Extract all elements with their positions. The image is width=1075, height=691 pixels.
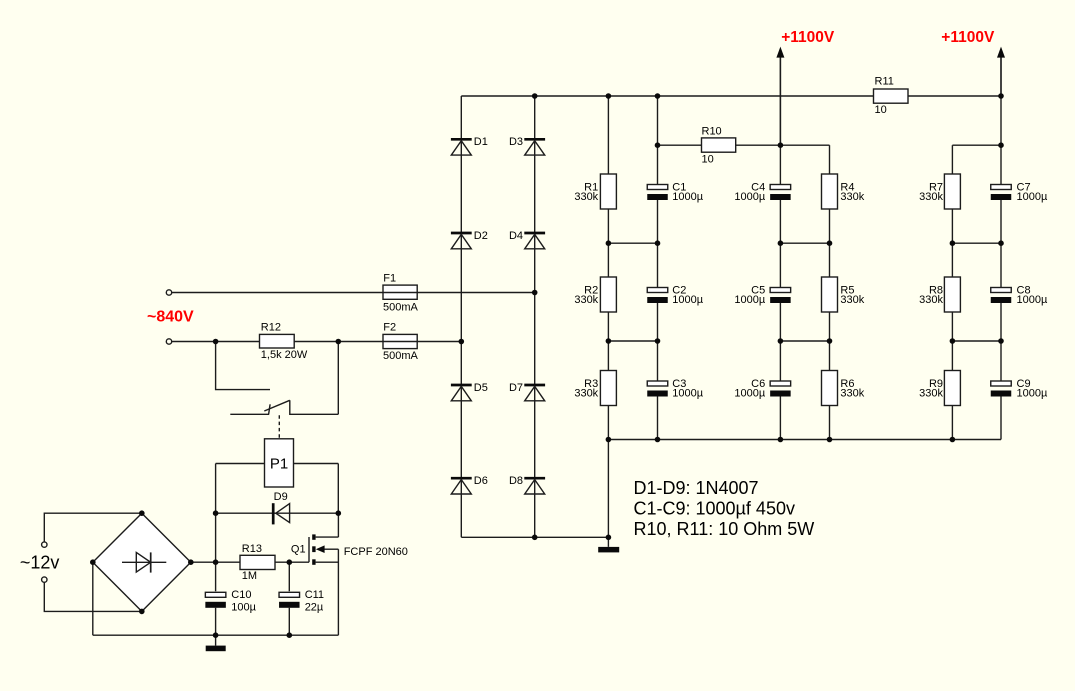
node: F2 out / D1 column xyxy=(459,339,465,345)
svg-text:1000µ: 1000µ xyxy=(1017,191,1048,203)
wire: bridge plus to R13 xyxy=(191,561,240,563)
diode D6 xyxy=(451,478,472,494)
relay coil P1 xyxy=(265,439,294,487)
svg-text:D2: D2 xyxy=(474,230,488,242)
wire: relay contact right throw xyxy=(290,400,339,414)
svg-text:R12: R12 xyxy=(261,322,281,334)
wire: F1 element through body xyxy=(383,292,417,294)
svg-text:P1: P1 xyxy=(270,456,288,473)
svg-text:1,5k 20W: 1,5k 20W xyxy=(261,349,308,361)
capacitor C9 xyxy=(991,381,1012,397)
node: bridge right vertex xyxy=(188,559,194,565)
node: diode bottom bus / ground column xyxy=(606,535,612,541)
svg-text:330k: 330k xyxy=(919,387,943,399)
wire: row2 link C5-R5 xyxy=(780,340,829,342)
wire: relay contact fixed throw xyxy=(230,413,269,415)
terminal: 12v upper xyxy=(42,542,47,547)
node: row2 x=780.4 xyxy=(778,338,784,344)
wire: F1 line xyxy=(172,292,535,294)
resistor R8 xyxy=(944,277,960,312)
node: D9 left xyxy=(213,510,219,516)
wire: top HV bus xyxy=(461,95,1001,97)
wire: C11 column xyxy=(288,562,290,635)
svg-text:C1-C9: 1000µf 450v: C1-C9: 1000µf 450v xyxy=(634,498,795,518)
ground (main HV) xyxy=(598,547,619,553)
node: row1 x=780.4 xyxy=(778,240,784,246)
wire: row1 link C4-R4 xyxy=(780,242,829,244)
resistor R6 xyxy=(822,371,838,406)
svg-text:D8: D8 xyxy=(509,475,523,487)
resistor R7 xyxy=(944,174,960,209)
node: cap bus x=657.5 xyxy=(655,437,661,443)
svg-text:1000µ: 1000µ xyxy=(672,191,703,203)
wire: row1 link R7-C7 xyxy=(952,242,1001,244)
wire: relay actuator dashed link xyxy=(278,415,280,439)
wire: low-voltage ground bus xyxy=(93,634,339,636)
capacitor C1 xyxy=(647,185,668,201)
svg-text:1000µ: 1000µ xyxy=(1017,387,1048,399)
node: row1 x=1001.0 xyxy=(998,240,1004,246)
node: row1 x=657.5 xyxy=(655,240,661,246)
node: row2 x=608.4 xyxy=(606,338,612,344)
capacitor C7 xyxy=(991,185,1012,201)
svg-text:330k: 330k xyxy=(574,387,598,399)
resistor R4 xyxy=(822,174,838,209)
resistor R9 xyxy=(944,371,960,406)
capacitor C4 xyxy=(770,185,791,201)
node: R10 rail / C4 column xyxy=(778,142,784,148)
node: bridge bottom vertex xyxy=(139,609,145,615)
wire: diode column D3/D4/D7/D8 xyxy=(534,96,536,537)
svg-text:~840V: ~840V xyxy=(147,309,194,326)
terminal: AC input upper xyxy=(166,290,171,295)
svg-text:F2: F2 xyxy=(383,322,396,334)
diode D8 xyxy=(524,478,545,494)
svg-text:R13: R13 xyxy=(242,543,262,555)
transistor Q1 (MOSFET) xyxy=(309,513,338,565)
wire: right bank top jog xyxy=(952,144,1001,146)
svg-text:D1-D9: 1N4007: D1-D9: 1N4007 xyxy=(634,478,759,498)
node: row1 x=829.5 xyxy=(827,240,833,246)
node: cap bus x=952.4 xyxy=(950,437,956,443)
node: F1 out / D3 column xyxy=(532,290,538,296)
svg-text:D7: D7 xyxy=(509,382,523,394)
capacitor C8 xyxy=(991,288,1012,304)
svg-text:1M: 1M xyxy=(242,570,257,582)
wire: relay contact blade xyxy=(264,400,290,411)
node: diode bottom bus / D8 xyxy=(532,535,538,541)
wire: R7 column top jog xyxy=(951,145,953,174)
svg-text:Q1: Q1 xyxy=(291,543,306,555)
wire: R4/R5/R6 column xyxy=(829,174,831,440)
svg-text:+1100V: +1100V xyxy=(941,29,995,46)
ground (low-voltage) xyxy=(206,635,226,651)
wire: relay contact right arm xyxy=(337,342,339,415)
wire: diode bottom bus xyxy=(461,536,608,538)
node: row2 x=829.5 xyxy=(827,338,833,344)
svg-text:F1: F1 xyxy=(383,273,396,285)
svg-text:D4: D4 xyxy=(509,230,523,242)
diode D9 xyxy=(273,503,289,524)
svg-text:1000µ: 1000µ xyxy=(1017,294,1048,306)
svg-text:330k: 330k xyxy=(574,191,598,203)
node: R13 in / C10 top xyxy=(213,559,219,565)
wire: row1 link R1-C1 xyxy=(608,242,657,244)
svg-text:~12v: ~12v xyxy=(20,553,60,573)
wire: C10 column xyxy=(215,513,217,635)
svg-text:D1: D1 xyxy=(474,136,488,148)
node: row2 x=1001.0 xyxy=(998,338,1004,344)
capacitor C6 xyxy=(770,381,791,397)
diode D7 xyxy=(524,385,545,401)
node: top bus / D3 column xyxy=(532,93,538,99)
svg-text:330k: 330k xyxy=(574,294,598,306)
diode D3 xyxy=(524,139,545,155)
node: row1 x=952.4 xyxy=(950,240,956,246)
wire: relay contact tick xyxy=(269,404,271,414)
resistor R10 xyxy=(702,138,736,152)
wire: C1/C2/C3 column xyxy=(657,96,659,440)
node: ground bus / C10 bottom xyxy=(213,632,219,638)
node: row2 x=952.4 xyxy=(950,338,956,344)
node: bridge top vertex xyxy=(139,510,145,516)
node: ground bus / C11 bottom xyxy=(287,632,293,638)
diode D1 xyxy=(451,139,472,155)
svg-text:10: 10 xyxy=(875,104,887,116)
resistor R1 xyxy=(600,174,616,209)
svg-text:330k: 330k xyxy=(919,191,943,203)
bridge rectifier B1 xyxy=(93,513,191,611)
svg-text:1000µ: 1000µ xyxy=(734,191,765,203)
wire: R7/R8/R9 column xyxy=(951,174,953,440)
node: right jog / C7 column xyxy=(998,142,1004,148)
node: R10 rail / C1 column xyxy=(655,142,661,148)
node: cap bus x=608.4 xyxy=(606,437,612,443)
svg-text:330k: 330k xyxy=(919,294,943,306)
svg-text:D6: D6 xyxy=(474,475,488,487)
svg-text:1000µ: 1000µ xyxy=(672,294,703,306)
resistor R5 xyxy=(822,277,838,312)
svg-text:1000µ: 1000µ xyxy=(734,387,765,399)
svg-text:D9: D9 xyxy=(274,491,288,503)
svg-text:R10, R11: 10 Ohm 5W: R10, R11: 10 Ohm 5W xyxy=(634,519,815,539)
power +1100V arrow (left) xyxy=(776,47,784,146)
diode D5 xyxy=(451,385,472,401)
svg-text:+1100V: +1100V xyxy=(781,29,835,46)
wire: relay contact left arm xyxy=(216,342,270,390)
svg-text:330k: 330k xyxy=(840,294,864,306)
terminal: AC input lower xyxy=(166,339,171,344)
resistor R13 xyxy=(240,555,275,569)
wire: F2/R12 line xyxy=(172,341,462,343)
capacitor C11 xyxy=(279,592,300,608)
fuse F2 xyxy=(383,334,417,348)
node: D9 right / Q1 drain xyxy=(336,510,342,516)
power +1100V arrow (right) xyxy=(997,47,1005,96)
node: cap bus x=780.4 xyxy=(778,437,784,443)
capacitor C2 xyxy=(647,288,668,304)
wire: C7/C8/C9 column xyxy=(1000,58,1002,440)
node: F2 line / relay left arm xyxy=(213,339,219,345)
resistor R11 xyxy=(874,89,909,103)
wire: C4/C5/C6 column xyxy=(779,58,781,440)
svg-text:R10: R10 xyxy=(702,126,722,138)
node: cap bus x=829.5 xyxy=(827,437,833,443)
svg-text:10: 10 xyxy=(702,154,714,166)
svg-text:R11: R11 xyxy=(875,76,894,88)
wire: Q1 source drop to ground bus xyxy=(337,549,339,635)
wire: P1 right lead xyxy=(294,463,339,465)
svg-text:D5: D5 xyxy=(474,382,488,394)
wire: R10 rail C1-node to R4 column xyxy=(658,144,830,146)
node: R13 out / gate / C11 top xyxy=(287,559,293,565)
wire: P1 right drop to D9 node xyxy=(337,464,339,514)
svg-text:330k: 330k xyxy=(840,387,864,399)
svg-text:500mA: 500mA xyxy=(383,301,419,313)
terminal: 12v lower xyxy=(42,577,47,582)
node: bridge left vertex xyxy=(90,559,96,565)
svg-text:100µ: 100µ xyxy=(231,602,256,614)
node: top bus / +1100V right xyxy=(998,93,1004,99)
wire: 12v lower lead to bridge xyxy=(44,582,142,611)
node: top bus / R1 column xyxy=(606,93,612,99)
wire: diode column D1/D2/D5/D6 xyxy=(460,96,462,537)
wire: F2 element through body xyxy=(383,341,417,343)
svg-text:D3: D3 xyxy=(509,136,523,148)
wire: R1/R2/R3 column down to ground xyxy=(607,96,609,547)
resistor R3 xyxy=(600,371,616,406)
node: top bus / C1 column xyxy=(655,93,661,99)
resistor R12 xyxy=(260,334,295,348)
node: F2 line / relay right arm xyxy=(336,339,342,345)
wire: R13 to gate xyxy=(275,561,309,563)
svg-text:500mA: 500mA xyxy=(383,350,419,362)
svg-text:FCPF 20N60: FCPF 20N60 xyxy=(344,546,408,558)
wire: P1 left lead xyxy=(216,463,265,465)
wire: P1 left drop to D9 node xyxy=(215,464,217,514)
wire: bridge minus drop to 12v ground bus xyxy=(92,562,94,635)
svg-text:1000µ: 1000µ xyxy=(734,294,765,306)
svg-text:C11: C11 xyxy=(305,589,324,601)
resistor R2 xyxy=(600,277,616,312)
capacitor C3 xyxy=(647,381,668,397)
wire: cap bank bottom bus xyxy=(608,439,1001,441)
node: row1 x=608.4 xyxy=(606,240,612,246)
wire: R4 column top jog xyxy=(829,145,831,174)
wire: row2 link R8-C8 xyxy=(952,340,1001,342)
capacitor C5 xyxy=(770,288,791,304)
fuse F1 xyxy=(383,285,417,299)
svg-text:22µ: 22µ xyxy=(305,602,324,614)
node: row2 x=657.5 xyxy=(655,338,661,344)
wire: 12v upper lead to bridge xyxy=(44,513,142,542)
diode D2 xyxy=(451,233,472,249)
capacitor C10 xyxy=(205,592,226,608)
wire: row2 link R2-C2 xyxy=(608,340,657,342)
svg-text:330k: 330k xyxy=(840,191,864,203)
svg-text:1000µ: 1000µ xyxy=(672,387,703,399)
wire: D9 net xyxy=(216,512,339,514)
svg-text:C10: C10 xyxy=(231,589,251,601)
diode D4 xyxy=(524,233,545,249)
